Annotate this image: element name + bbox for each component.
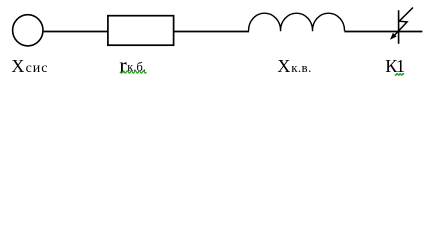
svg-text:r: r (119, 52, 127, 77)
system source circle (13, 15, 43, 46)
wire (44, 31, 108, 33)
resistor rк.б. (108, 16, 174, 46)
grammar squiggle under К1 (395, 74, 404, 76)
fault lightning arrow (393, 8, 413, 38)
svg-text:Х: Х (277, 56, 290, 76)
grammar squiggle under rк.б. (120, 71, 146, 73)
svg-text:сис: сис (26, 61, 49, 76)
svg-text:1: 1 (396, 56, 405, 76)
wire (344, 31, 422, 33)
inductor Хк.в. (249, 13, 345, 31)
svg-text:Х: Х (11, 56, 24, 76)
arrowhead (390, 33, 397, 40)
wire (174, 31, 249, 33)
svg-text:к.в.: к.в. (291, 60, 312, 75)
fault point K1 marker line (398, 10, 400, 44)
